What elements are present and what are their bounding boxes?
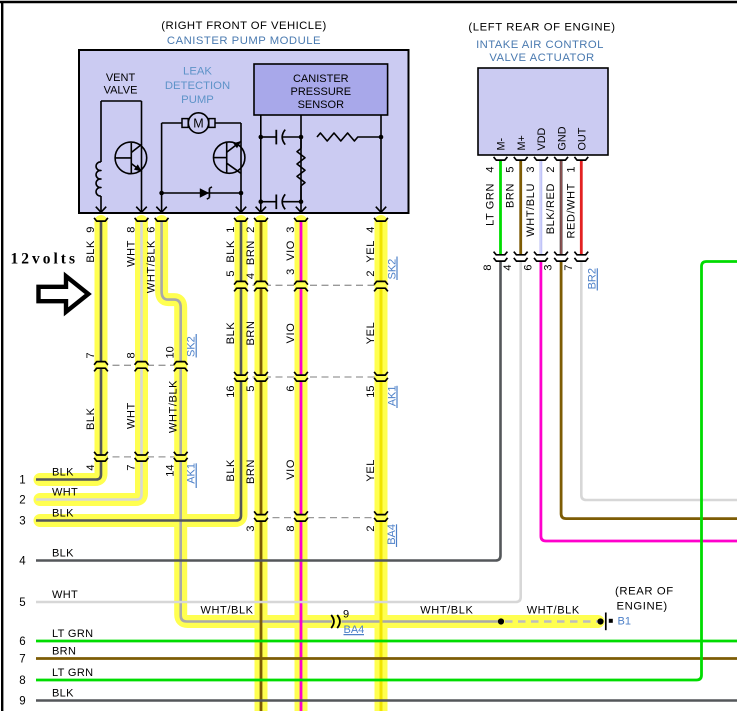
svg-text:WHT/BLK: WHT/BLK xyxy=(201,605,254,617)
svg-text:BLK: BLK xyxy=(52,687,74,699)
svg-text:3: 3 xyxy=(19,515,25,527)
svg-text:LT GRN: LT GRN xyxy=(52,628,93,640)
svg-text:BLK: BLK xyxy=(52,507,74,519)
svg-text:BR2: BR2 xyxy=(586,268,598,289)
svg-text:8: 8 xyxy=(482,265,494,271)
svg-text:GND: GND xyxy=(556,126,568,150)
svg-text:M: M xyxy=(193,116,203,130)
svg-text:15: 15 xyxy=(365,386,377,398)
svg-text:5: 5 xyxy=(19,597,25,609)
svg-text:WHT: WHT xyxy=(126,402,138,429)
svg-text:LT GRN: LT GRN xyxy=(52,667,93,679)
svg-text:3: 3 xyxy=(525,167,537,173)
svg-text:M+: M+ xyxy=(516,135,528,150)
svg-text:7: 7 xyxy=(19,653,25,665)
svg-text:CANISTER: CANISTER xyxy=(293,73,349,85)
svg-text:3 VIO 3: 3 VIO 3 xyxy=(285,226,297,275)
svg-text:2: 2 xyxy=(365,526,377,532)
svg-text:4: 4 xyxy=(502,265,514,271)
svg-text:6: 6 xyxy=(285,386,297,392)
svg-text:WHT/BLK: WHT/BLK xyxy=(527,605,580,617)
svg-text:BLK/RED: BLK/RED xyxy=(545,183,557,234)
svg-text:WHT: WHT xyxy=(52,589,78,601)
svg-text:8: 8 xyxy=(285,526,297,532)
svg-text:4: 4 xyxy=(19,555,26,567)
svg-text:BLK 9: BLK 9 xyxy=(85,226,97,263)
svg-text:(LEFT REAR OF ENGINE): (LEFT REAR OF ENGINE) xyxy=(468,22,615,34)
svg-text:16: 16 xyxy=(225,386,237,398)
svg-text:9: 9 xyxy=(343,609,349,621)
svg-text:5 BLK 1: 5 BLK 1 xyxy=(225,226,237,277)
svg-text:(REAR OF: (REAR OF xyxy=(615,585,674,597)
svg-text:7: 7 xyxy=(563,265,575,271)
svg-text:BRN: BRN xyxy=(245,459,257,484)
svg-text:RED/WHT: RED/WHT xyxy=(565,183,577,239)
svg-text:5: 5 xyxy=(505,167,517,173)
svg-text:WHT/BLK: WHT/BLK xyxy=(420,605,473,617)
svg-text:8: 8 xyxy=(19,675,25,687)
svg-text:2: 2 xyxy=(19,494,25,506)
svg-text:BLK: BLK xyxy=(52,547,74,559)
svg-text:M-: M- xyxy=(496,138,508,151)
svg-text:ENGINE): ENGINE) xyxy=(617,600,668,612)
svg-text:5: 5 xyxy=(245,386,257,392)
svg-text:7: 7 xyxy=(85,352,97,358)
svg-text:3: 3 xyxy=(245,526,257,532)
svg-text:BRN: BRN xyxy=(52,645,76,657)
svg-text:YEL: YEL xyxy=(365,322,377,345)
svg-text:9: 9 xyxy=(19,695,25,707)
svg-text:BLK: BLK xyxy=(52,466,74,478)
svg-text:8: 8 xyxy=(126,352,138,358)
svg-text:OUT: OUT xyxy=(577,127,589,150)
svg-text:PUMP: PUMP xyxy=(181,94,214,106)
svg-text:LEAK: LEAK xyxy=(183,66,212,78)
svg-text:DETECTION: DETECTION xyxy=(165,80,230,92)
svg-text:1: 1 xyxy=(565,167,577,173)
svg-text:BRN: BRN xyxy=(505,183,517,208)
svg-text:BLK: BLK xyxy=(225,322,237,345)
svg-text:INTAKE AIR CONTROL: INTAKE AIR CONTROL xyxy=(476,39,604,51)
svg-text:SENSOR: SENSOR xyxy=(298,99,345,111)
svg-text:3: 3 xyxy=(543,265,555,271)
svg-text:WHT 8: WHT 8 xyxy=(126,226,138,267)
svg-text:BRN: BRN xyxy=(245,320,257,345)
svg-text:VALVE ACTUATOR: VALVE ACTUATOR xyxy=(489,52,594,64)
svg-text:PRESSURE: PRESSURE xyxy=(291,86,352,98)
svg-text:6: 6 xyxy=(19,636,25,648)
svg-text:WHT: WHT xyxy=(52,486,78,498)
svg-text:4: 4 xyxy=(485,167,497,173)
svg-text:2: 2 xyxy=(545,167,557,173)
svg-text:BLK: BLK xyxy=(225,459,237,482)
svg-text:YEL: YEL xyxy=(365,459,377,482)
svg-text:WHT/BLU: WHT/BLU xyxy=(525,183,537,237)
svg-text:B1: B1 xyxy=(618,616,631,628)
svg-text:VENT: VENT xyxy=(106,72,136,84)
svg-text:12volts: 12volts xyxy=(11,251,79,268)
svg-text:7: 7 xyxy=(126,465,138,471)
svg-text:WHT/BLK 6: WHT/BLK 6 xyxy=(146,226,158,293)
svg-text:14: 14 xyxy=(165,465,177,477)
svg-text:1: 1 xyxy=(19,474,25,486)
svg-text:4: 4 xyxy=(85,465,97,471)
svg-text:6: 6 xyxy=(522,265,534,271)
svg-text:VALVE: VALVE xyxy=(104,85,138,97)
svg-text:2 YEL 4: 2 YEL 4 xyxy=(365,226,377,277)
svg-text:VIO: VIO xyxy=(285,459,297,480)
svg-text:(RIGHT FRONT OF VEHICLE): (RIGHT FRONT OF VEHICLE) xyxy=(161,20,326,32)
svg-text:WHT/BLK: WHT/BLK xyxy=(168,380,180,433)
svg-text:LT GRN: LT GRN xyxy=(485,183,497,226)
svg-text:VIO: VIO xyxy=(285,323,297,344)
svg-text:BLK: BLK xyxy=(85,407,97,430)
svg-text:CANISTER PUMP MODULE: CANISTER PUMP MODULE xyxy=(167,35,321,47)
svg-text:10: 10 xyxy=(165,346,177,358)
svg-text:VDD: VDD xyxy=(536,128,548,151)
svg-text:4 BRN 2: 4 BRN 2 xyxy=(245,226,257,279)
